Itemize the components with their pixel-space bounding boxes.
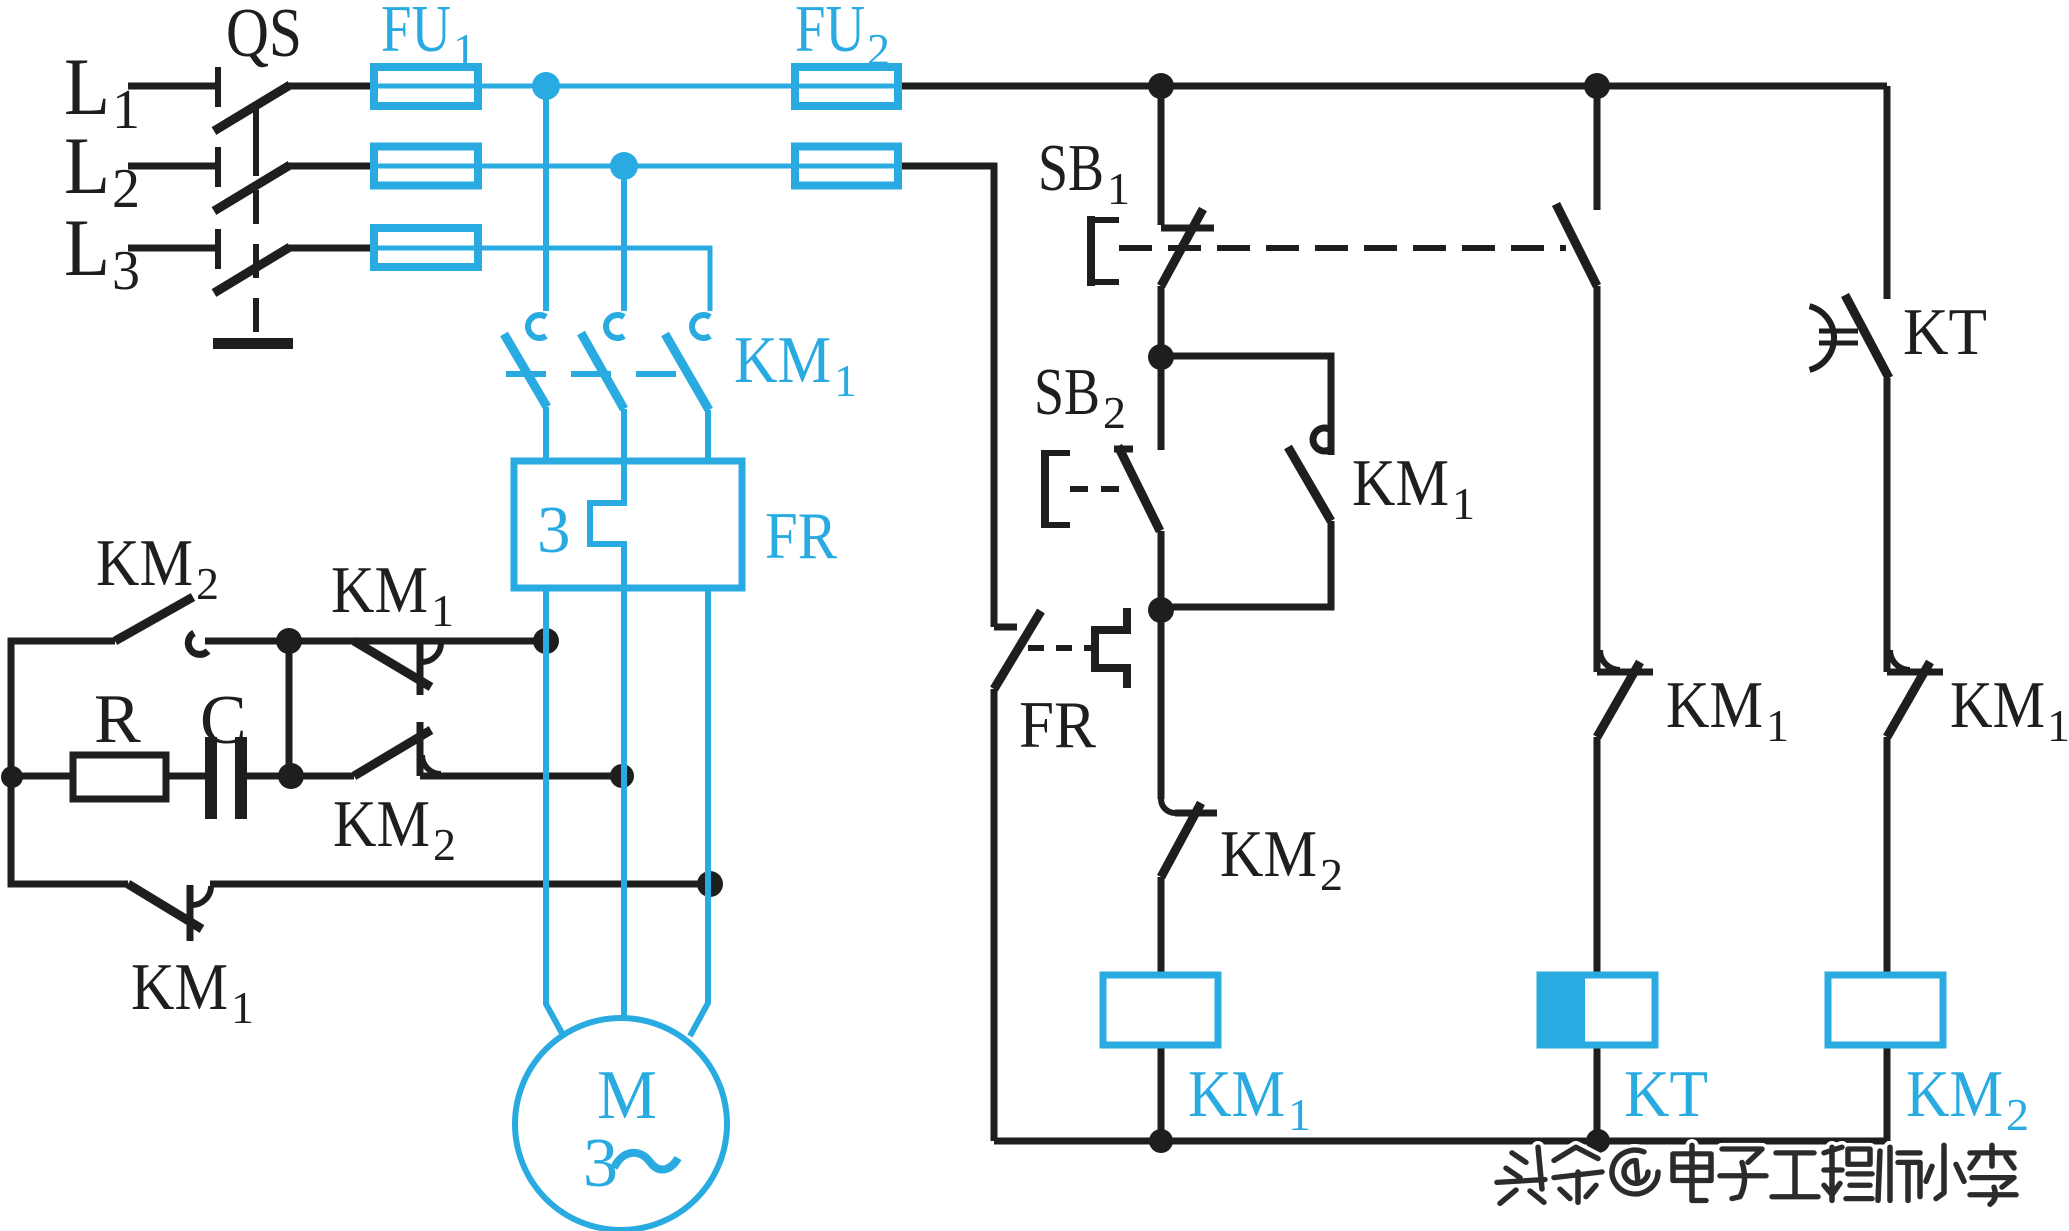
svg-text:FU: FU xyxy=(795,0,865,66)
resistor R xyxy=(73,755,166,799)
wire motor lead U xyxy=(546,588,563,1035)
junction phase A tap xyxy=(532,72,560,100)
svg-text:1: 1 xyxy=(1107,163,1130,214)
FR release dashes xyxy=(1028,645,1095,651)
wire pole B to FR xyxy=(621,409,627,461)
wire phase A drop xyxy=(543,86,549,311)
svg-text:3: 3 xyxy=(537,493,571,567)
contact KM1 main pole B hook xyxy=(606,315,624,338)
contact KM1 main pole B blade xyxy=(581,333,624,409)
svg-text:KM: KM xyxy=(331,553,428,627)
wire KM1 coil to bottom rail xyxy=(1158,1045,1165,1141)
wire phase B drop xyxy=(621,166,627,311)
contact KM1 main pole C hook xyxy=(692,315,710,338)
thermal overload FR box xyxy=(514,461,742,588)
wire SB2 to node B xyxy=(1158,531,1165,610)
svg-text:M: M xyxy=(597,1057,657,1134)
svg-text:KM: KM xyxy=(1188,1057,1285,1131)
contact FR NC blade xyxy=(994,611,1041,689)
wire L2 cyan xyxy=(478,164,795,169)
wire L1 blade to FU1 xyxy=(288,83,374,90)
contact KT delayed NC blade xyxy=(1845,295,1889,378)
wire snubber left loop xyxy=(11,641,128,884)
contact KM1 (KT branch) corner arc xyxy=(1600,650,1620,670)
fuse FU1 pole 3 xyxy=(374,246,478,251)
coil KM1 xyxy=(1103,975,1218,1045)
contact KM1 aux blade xyxy=(1288,447,1331,521)
contact KM1 main linkage dashes xyxy=(506,371,695,377)
thermal overload FR heater element xyxy=(590,461,624,588)
svg-text:SB: SB xyxy=(1034,355,1100,429)
switch QS pole 2 fixed contact xyxy=(215,147,221,187)
junction top rail / KT branch xyxy=(1584,73,1610,99)
wire bottom control rail xyxy=(994,1138,1887,1145)
wire node B to KM2 contact xyxy=(1158,610,1165,799)
svg-text:FU: FU xyxy=(381,0,451,66)
svg-text:2: 2 xyxy=(112,158,140,220)
junction phase B tap xyxy=(610,152,638,180)
svg-text:SB: SB xyxy=(1038,131,1104,205)
wire KM1 contact to KT coil xyxy=(1594,737,1601,975)
svg-text:FR: FR xyxy=(1019,688,1096,762)
junction mid row / phase B xyxy=(610,764,634,788)
button SB2 linkage dashes xyxy=(1070,486,1130,492)
contact KM1 NC bar (snubber mid) xyxy=(417,642,424,695)
svg-text:QS: QS xyxy=(226,0,302,72)
switch QS pole 1 fixed contact xyxy=(215,67,221,107)
wire SB1 branch upper xyxy=(1158,86,1165,225)
junction bottom rail / KM1 coil xyxy=(1149,1129,1173,1153)
contact KM2 NO hook (snubber top) xyxy=(188,633,208,654)
contact KM1 (KT branch) stub xyxy=(1597,669,1653,676)
contact KM1 (KM2 branch) corner arc xyxy=(1890,650,1910,670)
wire C to node xyxy=(247,773,291,780)
svg-text:2: 2 xyxy=(867,24,890,75)
svg-text:2: 2 xyxy=(433,819,456,870)
wire L3 cyan xyxy=(478,248,710,311)
junction node A xyxy=(1148,344,1174,370)
contact KM2 NO blade (snubber mid) xyxy=(354,730,431,776)
junction mid row / R branch xyxy=(278,763,304,789)
wire left control rail lower xyxy=(991,689,998,1141)
svg-text:KM: KM xyxy=(1666,668,1763,742)
svg-text:C: C xyxy=(200,682,247,759)
svg-text:L: L xyxy=(64,120,110,211)
wire KM2 branch upper xyxy=(1884,86,1891,299)
wire pole C to FR xyxy=(705,410,711,461)
svg-text:KT: KT xyxy=(1624,1057,1708,1131)
svg-text:R: R xyxy=(94,681,141,758)
wire FU2 L2 output xyxy=(898,166,994,627)
wire KT coil to bottom rail xyxy=(1594,1045,1601,1141)
contact KM1 (KM2 branch) blade xyxy=(1887,662,1930,737)
svg-text:KM: KM xyxy=(96,526,193,600)
contact FR NC stub xyxy=(994,624,1017,631)
watermark 头条 @电子工程师小李 xyxy=(1497,1145,2016,1204)
contact KM1 NC corner arc (snubber mid) xyxy=(422,643,441,662)
wire motor lead V xyxy=(621,588,627,1020)
wire KT contact to KM1 contact xyxy=(1884,378,1891,672)
switch QS pole 3 fixed contact xyxy=(215,229,221,269)
contact KT delay semicircle xyxy=(1810,306,1835,370)
svg-text:1: 1 xyxy=(431,585,454,636)
svg-text:1: 1 xyxy=(2047,700,2069,751)
switch QS pole 2 blade xyxy=(214,165,290,211)
switch QS mechanical link xyxy=(253,106,259,176)
button SB1 second pole blade xyxy=(1556,204,1597,286)
wire R to C xyxy=(166,773,205,780)
wire node A to SB2 xyxy=(1158,357,1165,450)
svg-text:1: 1 xyxy=(453,24,476,75)
svg-text:2: 2 xyxy=(2006,1089,2029,1140)
contact KM1 NC corner arc (snubber bottom) xyxy=(192,886,211,905)
node L3 incoming wire xyxy=(128,245,215,252)
coil KT xyxy=(1540,975,1655,1045)
svg-text:KM: KM xyxy=(1220,817,1317,891)
wire bottom row to phase C xyxy=(210,881,710,888)
svg-text:1: 1 xyxy=(1288,1089,1311,1140)
svg-text:1: 1 xyxy=(112,79,140,141)
contact KM1 main pole A blade xyxy=(504,334,547,407)
contact KM1 aux hook xyxy=(1313,428,1331,451)
button SB2 NO blade xyxy=(1118,446,1160,531)
switch QS pole 3 blade xyxy=(214,247,290,293)
button SB2 actuator bracket xyxy=(1042,450,1070,528)
svg-text:KM: KM xyxy=(1906,1057,2003,1131)
wire KM1 aux branch bottom xyxy=(1161,521,1331,607)
wire KM1 contact to KM2 coil xyxy=(1884,737,1891,975)
wire R branch vertical xyxy=(286,641,293,776)
svg-text:FR: FR xyxy=(765,499,837,573)
svg-text:1: 1 xyxy=(834,355,857,406)
button SB1 actuator bracket xyxy=(1088,216,1119,286)
button SB1 NC stub xyxy=(1161,225,1214,232)
coil KM2 xyxy=(1828,975,1943,1045)
contact KM1 main pole C blade xyxy=(665,334,709,410)
junction bottom rail / KT coil xyxy=(1586,1129,1610,1153)
contact KM1 NC blade (snubber mid) xyxy=(354,641,431,687)
wire snubber top to phase A xyxy=(205,638,546,645)
fuse FU1 pole 1 xyxy=(374,84,478,89)
svg-text:L: L xyxy=(64,41,110,132)
wire mid row to phase B xyxy=(420,773,624,780)
svg-text:1: 1 xyxy=(231,982,254,1033)
node L2 incoming wire xyxy=(128,163,215,170)
contact KM1 NC bar (snubber bottom) xyxy=(187,885,194,941)
svg-text:KM: KM xyxy=(333,787,430,861)
wire KT branch middle xyxy=(1594,286,1601,672)
svg-text:KM: KM xyxy=(1950,668,2045,742)
wire motor lead W xyxy=(690,588,708,1036)
svg-text:KM: KM xyxy=(734,323,831,397)
svg-text:KT: KT xyxy=(1903,295,1987,369)
wire SB1 to node A xyxy=(1158,286,1165,357)
fuse FU2 pole 2 xyxy=(795,164,898,169)
wire KM2 coil to bottom rail xyxy=(1884,1045,1891,1141)
junction mid row left xyxy=(1,766,23,788)
svg-text:L: L xyxy=(64,202,110,293)
motor M circle xyxy=(515,1018,727,1230)
junction snubber top / phase A xyxy=(533,628,559,654)
contact KM2 NC corner arc xyxy=(1161,799,1175,813)
svg-text:3: 3 xyxy=(112,240,140,302)
contact KM2 NC blade xyxy=(1161,803,1201,877)
label ~ motor xyxy=(614,1153,678,1170)
button SB1 NC blade xyxy=(1161,209,1203,286)
contact KT delay equal bars xyxy=(1819,329,1858,334)
svg-text:1: 1 xyxy=(1766,700,1789,751)
wire L3 blade to FU1 xyxy=(288,245,374,252)
junction bottom row / phase C xyxy=(697,871,723,897)
contact KM1 main pole A hook xyxy=(528,315,546,338)
svg-text:2: 2 xyxy=(1103,387,1126,438)
FR release bracket xyxy=(1095,608,1127,688)
svg-text:1: 1 xyxy=(1452,478,1475,529)
svg-text:2: 2 xyxy=(1320,849,1343,900)
svg-text:2: 2 xyxy=(196,558,219,609)
wire KM1 aux branch top xyxy=(1161,356,1331,455)
contact KM2 NO blade (snubber top) xyxy=(115,597,193,641)
fuse FU2 pole 1 xyxy=(795,84,898,89)
wire pole A to FR xyxy=(543,407,549,461)
button SB1 linkage dashes xyxy=(1119,245,1566,251)
button SB2 blade tip tick xyxy=(1114,446,1133,453)
junction node B xyxy=(1148,597,1174,623)
switch QS handle bar xyxy=(213,338,293,349)
contact KM1 (KT branch) blade xyxy=(1597,662,1640,737)
wire mid row to R xyxy=(11,773,73,780)
contact KM2 NO corner arc (snubber mid) xyxy=(422,755,441,774)
wire L2 blade to FU1 xyxy=(288,163,374,170)
wire KM2 contact to KM1 coil xyxy=(1158,877,1165,975)
switch QS pole 1 blade xyxy=(214,85,290,131)
wire node to KM2 contact (mid) xyxy=(291,773,354,780)
node L1 incoming wire xyxy=(128,83,215,90)
capacitor C xyxy=(205,737,217,819)
contact KM2 NC stub xyxy=(1175,810,1217,817)
contact KM2 NO bar (snubber mid) xyxy=(417,722,424,776)
fuse FU1 pole 2 xyxy=(374,164,478,169)
junction snubber top / R branch xyxy=(276,628,302,654)
contact KM1 (KM2 branch) stub xyxy=(1887,669,1943,676)
wire KT branch upper xyxy=(1594,86,1601,210)
wire L1 cyan xyxy=(478,84,795,89)
wire top control rail xyxy=(898,83,1887,90)
contact KM1 NC blade (snubber bottom) xyxy=(128,884,202,929)
svg-text:KM: KM xyxy=(1352,446,1449,520)
svg-text:KM: KM xyxy=(131,950,228,1024)
junction top rail / SB1 branch xyxy=(1148,73,1174,99)
